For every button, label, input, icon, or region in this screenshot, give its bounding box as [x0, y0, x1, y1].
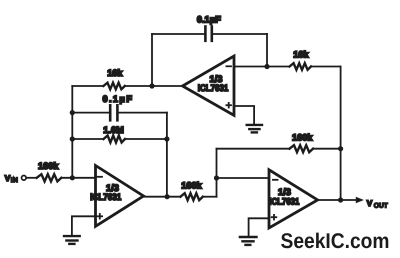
svg-text:1.6M: 1.6M: [103, 125, 124, 135]
capacitor C1 0.1uF: [152, 14, 267, 41]
resistor R5 160k: [181, 180, 217, 200]
wire R5 up to U1c inverting node: [216, 149, 218, 197]
wire U1a output: [144, 196, 181, 198]
svg-text:16k: 16k: [107, 68, 123, 78]
node: R6 at output rail: [338, 146, 343, 151]
op-amp U1b 1/3 ICL7631 (points left): [183, 56, 235, 115]
node: C2 at left rail: [70, 110, 75, 115]
wire left feedback rail: [71, 86, 73, 178]
wire to U1c inverting input: [217, 177, 270, 179]
svg-text:0.1μF: 0.1μF: [103, 94, 133, 104]
wire feedback vertical C2/R3 to U1a output: [166, 113, 168, 197]
svg-text:T: T: [384, 202, 388, 209]
op-amp U1c 1/3 ICL7631 (points right): [269, 170, 318, 228]
wire U1c output to VOUT: [318, 199, 357, 201]
ground G3: [240, 237, 257, 245]
wire U1b non-inverting input to ground: [234, 106, 254, 124]
svg-text:ICL7631: ICL7631: [90, 192, 121, 202]
wire U1a non-inverting input to ground: [72, 216, 96, 235]
node: output at rail: [338, 197, 343, 202]
ground G2: [64, 236, 80, 244]
label VOUT: [367, 199, 388, 209]
svg-text:SeekIC.com: SeekIC.com: [281, 229, 390, 253]
wire VIN terminal to R1: [26, 177, 37, 179]
op-amp U1a 1/3 ICL7631 (points right): [90, 166, 143, 227]
ground G1: [247, 125, 262, 132]
svg-text:V: V: [367, 199, 373, 208]
wire U1c non-inverting input to ground: [249, 218, 269, 236]
svg-text:16k: 16k: [293, 50, 309, 60]
wire U1b inverting input line: [234, 66, 290, 68]
node: U1a output: [165, 194, 170, 199]
wire right rail to U1c output: [340, 67, 342, 201]
resistor R2 16k: [72, 68, 152, 89]
svg-text:1/3: 1/3: [278, 187, 291, 197]
terminal VOUT arrow: [356, 197, 364, 204]
resistor R3 1.6M: [72, 125, 167, 143]
svg-text:ICL7631: ICL7631: [269, 197, 299, 207]
node: U1b inverting input: [264, 64, 269, 69]
svg-text:ICL7631: ICL7631: [198, 83, 229, 93]
wire U1b output to node: [152, 85, 183, 87]
svg-text:160k: 160k: [292, 133, 313, 143]
svg-text:0.1μF: 0.1μF: [197, 14, 221, 24]
wire node up to C1: [151, 34, 153, 86]
node: R3 at left rail: [70, 136, 75, 141]
wire R1 to U1a inverting input: [61, 177, 95, 179]
svg-text:160k: 160k: [181, 180, 202, 190]
node: U1a inverting input junction: [70, 175, 75, 180]
node: U1b output node: [149, 83, 154, 88]
node: U1c inverting input: [214, 175, 219, 180]
node: R3 at feedback vertical: [164, 136, 169, 141]
resistor R4 16k: [290, 50, 341, 70]
svg-text:N: N: [13, 177, 18, 184]
resistor R1 160k: [37, 161, 62, 181]
resistor R6 160k: [217, 133, 341, 153]
capacitor C2 0.1uF: [72, 94, 167, 121]
terminal VIN: [5, 174, 26, 184]
wire C1 right down to inverting input of U1b: [266, 34, 268, 67]
svg-text:160k: 160k: [38, 161, 59, 171]
